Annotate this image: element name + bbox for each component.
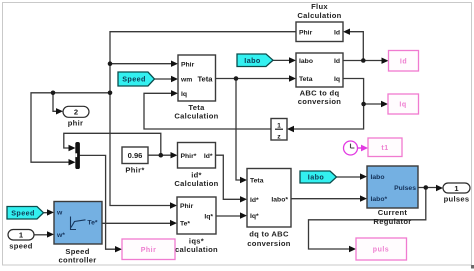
svg-text:calculation: calculation (175, 245, 218, 254)
arrowhead into dqABC Teta (240, 177, 247, 183)
arrowhead into dqABC Id* (240, 196, 247, 202)
goto Iq (388, 94, 419, 114)
svg-text:Iq: Iq (399, 102, 406, 109)
svg-text:Speed: Speed (122, 75, 146, 84)
from tag Iabo (bottom) (300, 171, 337, 183)
svg-text:Id*: Id* (204, 153, 213, 160)
arrowhead into Current Regulator Iabo* (360, 195, 367, 201)
wire iq*calc output to dqABC Iq* (216, 215, 241, 217)
wire Pulses net (309, 188, 438, 250)
svg-text:Phir: Phir (141, 247, 157, 254)
svg-text:Id: Id (334, 29, 340, 36)
svg-text:Iq: Iq (181, 91, 187, 98)
wire Iabo tag to Current Regulator (337, 176, 362, 178)
arrowhead into Iq goto (381, 101, 388, 107)
goto puls (356, 238, 407, 260)
svg-text:Iabo: Iabo (308, 173, 325, 182)
junction Id branch to Flux Calc (361, 58, 366, 63)
block Teta Calculation (174, 55, 218, 121)
from tag Iabo (top) (237, 54, 273, 67)
svg-text:controller: controller (58, 256, 96, 265)
svg-text:Teta: Teta (299, 76, 313, 83)
svg-text:Iq*: Iq* (204, 214, 213, 221)
svg-text:Regulator: Regulator (373, 217, 411, 226)
svg-text:Speed: Speed (11, 208, 35, 217)
svg-text:0.96: 0.96 (128, 151, 143, 160)
arrowhead into TetaCalc Phir (171, 61, 178, 67)
svg-text:z: z (277, 133, 281, 140)
svg-text:Id*: Id* (250, 197, 259, 204)
svg-text:Iabo*: Iabo* (371, 196, 388, 203)
svg-text:Phir: Phir (299, 29, 313, 36)
arrowhead into TetaCalc wm (171, 76, 178, 82)
svg-text:Iabo: Iabo (299, 58, 313, 65)
wire speed inport to controller w* (34, 234, 48, 236)
junction Teta branch (234, 76, 239, 81)
svg-text:phir: phir (68, 119, 84, 128)
wire Speed tag to controller w (44, 212, 49, 214)
junction 0.96-output branch (159, 153, 164, 158)
arrowhead into TetaCalc Iq (171, 90, 178, 96)
wire Speed controller Te* output to iq*calc (102, 222, 171, 224)
arrowhead into phir outport (56, 108, 63, 114)
block ABC to dq conversion (296, 53, 343, 106)
goto t1 (368, 138, 402, 157)
svg-text:Iq*: Iq* (250, 213, 259, 220)
block id* Calculation (174, 143, 218, 189)
wire phir net from Flux Calculation output (31, 32, 296, 206)
svg-text:Id: Id (400, 58, 407, 65)
svg-text:Calculation: Calculation (174, 112, 218, 121)
arrowhead into iq*calc Te* (170, 220, 177, 226)
svg-text:Phir: Phir (181, 61, 195, 68)
arrowhead into Id goto (382, 58, 389, 64)
wire id*calc output to dqABC Id* (216, 155, 242, 199)
mux (75, 142, 80, 169)
block Current Regulator (367, 166, 418, 226)
arrowhead into ABCdq Iabo (289, 57, 296, 63)
junction Iq branch to goto (361, 102, 366, 107)
svg-text:Te*: Te* (87, 220, 97, 227)
svg-text:Pulses: Pulses (394, 185, 416, 192)
arrowhead into unit delay (points left) (287, 126, 294, 132)
wire Iabo tag to ABCdq (273, 59, 290, 61)
svg-text:Te*: Te* (180, 221, 190, 228)
wire Phir* 0.96 net (64, 133, 171, 155)
junction phir-to-TetaCalc (108, 61, 113, 66)
outport 1 pulses (443, 183, 470, 204)
block dq to ABC conversion (247, 169, 291, 249)
svg-text:w*: w* (56, 232, 65, 239)
arrowhead into mux in1 (69, 145, 76, 151)
svg-text:Phir*: Phir* (181, 153, 197, 160)
svg-text:Calculation: Calculation (297, 11, 341, 20)
arrowhead into Current Regulator Iabo (360, 173, 367, 179)
svg-text:Iabo: Iabo (371, 174, 385, 181)
svg-text:Iabo: Iabo (244, 56, 261, 65)
arrowhead into Flux Calc Id input (points left) (343, 29, 350, 35)
block iqs* calculation (175, 197, 218, 254)
svg-text:Current: Current (378, 208, 408, 217)
svg-text:conversion: conversion (298, 97, 342, 106)
svg-text:Phir*: Phir* (125, 166, 144, 175)
from tag Speed (bottom) (7, 207, 44, 220)
arrowhead into id*calc Phir* (171, 152, 178, 158)
svg-text:w: w (56, 210, 63, 217)
junction Pulses branch (424, 185, 429, 190)
block Flux Calculation (296, 2, 343, 42)
wire Iq net (294, 79, 383, 130)
svg-text:Flux: Flux (311, 2, 328, 11)
svg-text:2: 2 (74, 108, 78, 117)
svg-text:Teta: Teta (250, 178, 264, 185)
wire Id net (343, 32, 383, 61)
svg-text:Iq: Iq (334, 76, 340, 83)
wire Speed tag to TetaCalc wm (155, 78, 172, 80)
outport 2 phir (63, 106, 89, 127)
clock (344, 141, 369, 155)
wire dqABC Iabo* output to Current Regulator (291, 198, 361, 200)
wire unit delay output to TetaCalc Iq (144, 93, 271, 129)
unit delay 1/z (271, 119, 287, 141)
goto Id (389, 51, 419, 72)
svg-text:Calculation: Calculation (174, 179, 218, 188)
svg-text:1: 1 (277, 123, 281, 130)
svg-text:pulses: pulses (444, 195, 470, 204)
from tag Speed (top) (118, 72, 155, 86)
arrowhead into Phir goto (115, 246, 122, 252)
arrowhead into pulses outport (436, 185, 443, 191)
wire Teta net (216, 79, 291, 181)
svg-text:speed: speed (9, 242, 33, 251)
arrowhead into ABCdq Teta (289, 75, 296, 81)
svg-text:Teta: Teta (197, 74, 213, 83)
svg-text:Phir: Phir (180, 203, 194, 210)
svg-text:Id: Id (334, 58, 340, 65)
inport 1 speed (8, 230, 34, 251)
goto Phir (122, 239, 175, 260)
svg-text:dq to ABC: dq to ABC (249, 230, 289, 239)
svg-text:t1: t1 (381, 145, 388, 152)
svg-text:Iabo*: Iabo* (271, 196, 288, 203)
arrowhead into controller w* (47, 231, 54, 237)
svg-text:conversion: conversion (247, 239, 291, 248)
arrowhead into mux in2 (69, 159, 76, 165)
arrowhead into dqABC Iq* (240, 212, 247, 218)
block Speed controller (54, 202, 102, 265)
svg-text:puls: puls (373, 247, 389, 254)
junction phir-outport-branch (51, 91, 56, 96)
constant 0.96 Phir* (122, 147, 148, 175)
arrowhead into controller w (47, 209, 54, 215)
arrowhead into puls goto (349, 246, 356, 252)
svg-text:wm: wm (180, 77, 192, 84)
junction phir-to-left-branch (108, 91, 113, 96)
arrowhead into iq*calc Phir (170, 202, 177, 208)
wire mux output to Phir goto (80, 155, 116, 249)
